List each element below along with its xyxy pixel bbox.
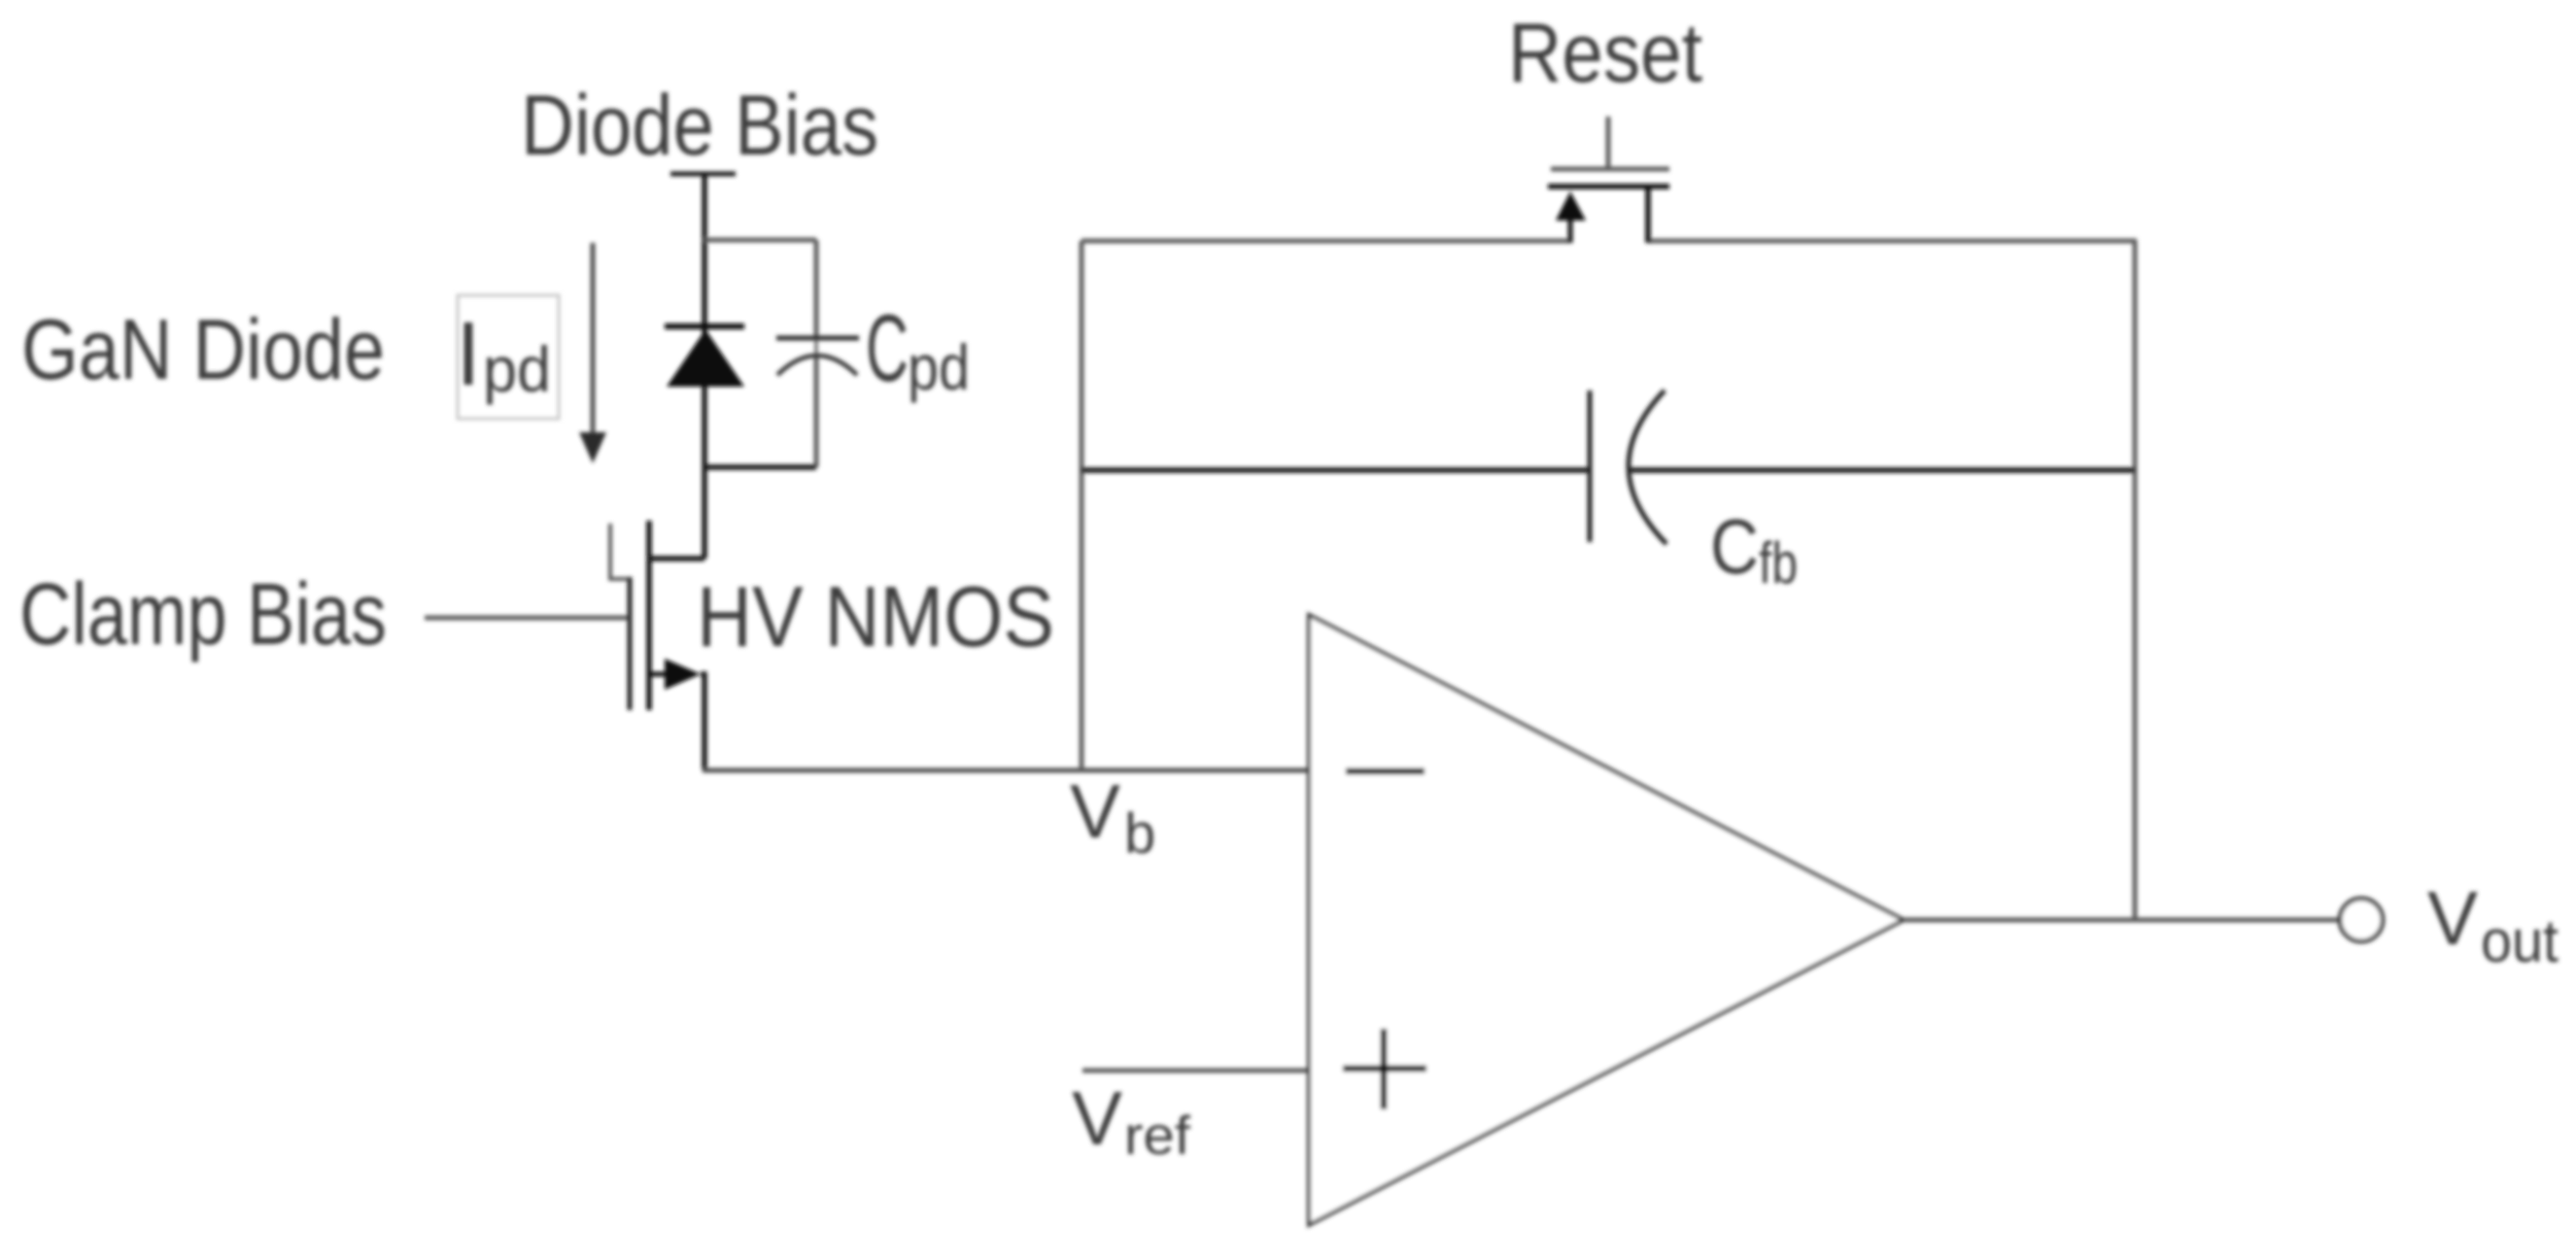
capacitor Cpd curved plate [777, 356, 857, 375]
wire: NMOS source down [701, 674, 704, 770]
terminal Vout circle [2340, 899, 2383, 941]
transistor M2 Reset drain vertical [1645, 187, 1651, 243]
wire: branch top horizontal (node above diode to Cpd) [704, 238, 816, 243]
wire: Cfb right wire [1630, 467, 2135, 473]
transistor M1 HV NMOS source arrow [665, 659, 701, 690]
capacitor Cpd top plate [776, 336, 859, 341]
svg-text:pd: pd [908, 331, 970, 403]
wire: Cpd inter-plate stub [814, 336, 818, 356]
op-amp U1 triangle [1309, 615, 1904, 1225]
svg-text:fb: fb [1759, 530, 1798, 595]
diode D1 GaN triangle [667, 329, 744, 387]
transistor M2 Reset gate bar [1551, 167, 1669, 172]
svg-text:V: V [1070, 768, 1120, 854]
transistor M1 HV NMOS drain connection [647, 556, 704, 561]
svg-text:C: C [1710, 503, 1759, 590]
wire: Vb horizontal to op-amp inverting input [703, 768, 1307, 773]
wire: top feedback left segment [1082, 239, 1570, 244]
wire: top feedback right segment [1648, 239, 2137, 244]
wire: op-amp output [1904, 918, 2339, 923]
svg-text:GaN Diode: GaN Diode [21, 301, 385, 397]
svg-text:Reset: Reset [1508, 7, 1702, 100]
svg-text:I: I [456, 303, 481, 404]
wire: branch bottom horizontal (below diode node) [704, 464, 816, 470]
capacitor Cfb curved plate [1629, 390, 1666, 544]
svg-text:b: b [1124, 802, 1155, 866]
current arrow Ipd shaft [591, 243, 596, 434]
wire: branch right vertical lower (Cpd to bottom node) [814, 356, 819, 467]
capacitor Cfb left plate [1588, 390, 1593, 542]
power rail Diode Bias bar [670, 172, 736, 177]
transistor M2 Reset source arrow [1556, 191, 1586, 221]
transistor M2 Reset channel bar [1548, 184, 1669, 189]
transistor M2 Reset source tail [1568, 219, 1573, 243]
svg-text:V: V [1072, 1075, 1122, 1161]
transistor M1 HV NMOS channel bar [646, 521, 652, 710]
svg-text:Clamp Bias: Clamp Bias [19, 566, 387, 663]
wire: Cfb left wire [1082, 467, 1590, 473]
op-amp U1 minus sign [1346, 768, 1425, 775]
svg-text:ref: ref [1124, 1104, 1190, 1166]
transistor M2 Reset gate lead [1606, 117, 1611, 167]
svg-text:pd: pd [483, 333, 551, 405]
diode D1 GaN cathode bar [665, 323, 744, 329]
svg-text:C: C [866, 294, 909, 401]
svg-text:V: V [2427, 875, 2478, 961]
transistor M1 HV NMOS gate bar [628, 577, 633, 710]
transistor M1 HV NMOS source stub [649, 672, 667, 677]
svg-text:Diode Bias: Diode Bias [521, 77, 878, 173]
svg-text:HV NMOS: HV NMOS [697, 568, 1054, 664]
wire: Clamp Bias to gate [425, 616, 628, 621]
transistor M1 HV NMOS gate hook [610, 524, 630, 579]
op-amp U1 plus sign [1343, 1066, 1426, 1072]
svg-text:out: out [2481, 908, 2559, 975]
wire: main vertical from Diode Bias rail to NMOS drain [702, 174, 707, 559]
wire: Vb vertical riser [1080, 241, 1084, 770]
wire: branch right vertical upper (to Cpd top plate) [814, 240, 819, 336]
wire: right feedback vertical [2133, 241, 2138, 920]
wire: Vref to op-amp non-inverting input [1082, 1069, 1307, 1073]
current arrow Ipd head [579, 432, 606, 463]
label Ipd box [458, 295, 559, 419]
